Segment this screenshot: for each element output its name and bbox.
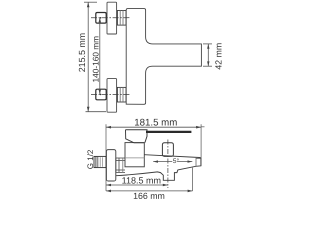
svg-text:140-160 mm: 140-160 mm [91,36,101,83]
svg-text:G 1/2: G 1/2 [86,149,95,169]
svg-text:5°: 5° [173,158,180,165]
svg-text:166 mm: 166 mm [133,191,165,200]
svg-text:118.5 mm: 118.5 mm [122,175,161,185]
svg-text:215.5 mm: 215.5 mm [77,33,87,72]
svg-text:42 mm: 42 mm [214,43,224,70]
svg-text:181.5 mm: 181.5 mm [134,117,177,128]
